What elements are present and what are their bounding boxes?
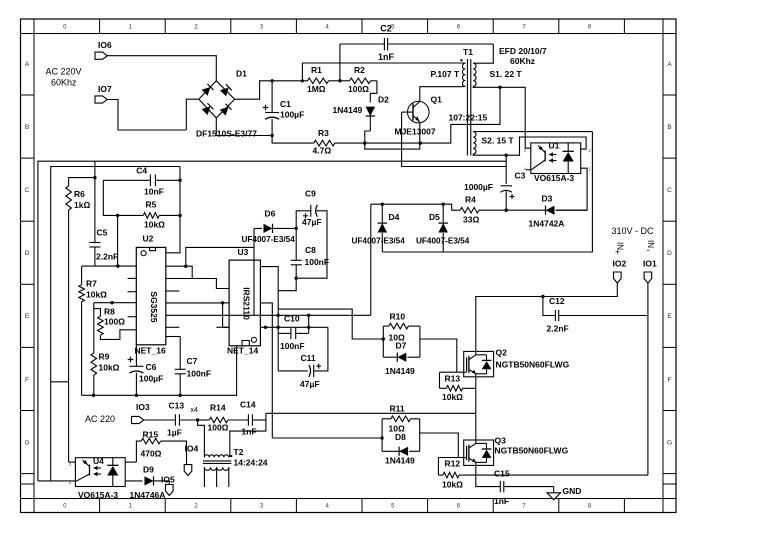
wire [462,85,466,87]
wire [371,204,460,210]
node [277,326,280,329]
svg-text:EFD 20/10/7: EFD 20/10/7 [499,46,547,56]
wire Q1 base [402,112,507,166]
node [221,301,224,304]
resistor R4 [460,207,479,213]
svg-text:C: C [25,187,30,194]
svg-text:G: G [667,439,672,446]
svg-text:100µF: 100µF [139,374,163,384]
svg-text:Q2: Q2 [496,348,508,358]
svg-text:Q1: Q1 [431,95,443,105]
wire [473,131,592,133]
svg-text:IO7: IO7 [98,84,112,94]
wire [128,291,137,293]
wire half-bridge mid rail [266,412,476,414]
wire [278,278,296,291]
wire U1 pin4 stub [526,169,531,171]
svg-text:C9: C9 [305,189,316,199]
resistor R10 [383,325,389,327]
svg-text:SG3525: SG3525 [149,291,159,322]
border frame [21,19,677,513]
optocoupler U4 VO615A-3 [75,458,125,487]
svg-text:MJE13007: MJE13007 [395,127,436,137]
node [419,141,422,144]
svg-text:C10: C10 [284,314,300,324]
svg-text:IRS2110: IRS2110 [242,287,252,320]
svg-text:2.2nF: 2.2nF [547,324,569,334]
svg-text:1N4149: 1N4149 [385,456,415,466]
svg-text:GND: GND [563,486,582,496]
capacitor C4 [103,179,150,181]
svg-text:C2: C2 [380,24,392,34]
wire [166,278,192,280]
wire [230,420,266,457]
svg-text:2.2nF: 2.2nF [96,252,118,262]
svg-text:1N4742A: 1N4742A [529,219,565,229]
svg-text:G: G [24,439,29,446]
wire [166,336,180,338]
svg-text:AC 220V: AC 220V [46,67,82,77]
wire [166,326,180,328]
svg-text:D1: D1 [236,69,247,79]
wire [476,283,618,351]
svg-text:C7: C7 [187,356,198,366]
svg-text:R6: R6 [74,189,85,199]
resistor R1 [302,80,307,82]
svg-text:B: B [667,124,671,131]
svg-text:C12: C12 [549,296,565,306]
wire [166,290,180,292]
wire [302,63,461,81]
svg-text:D7: D7 [396,341,407,351]
svg-text:D6: D6 [265,209,276,219]
diode D7 [383,356,397,358]
wire [506,137,586,155]
wire [198,420,205,457]
svg-text:D: D [667,250,672,257]
diode D6 [254,227,262,229]
svg-text:10kΩ: 10kΩ [86,290,107,300]
wire [339,44,341,81]
svg-text:UF4007-E3/54: UF4007-E3/54 [416,237,470,246]
wire [473,44,493,63]
wire [223,303,230,327]
wire [419,122,421,143]
svg-text:AC 220: AC 220 [85,414,115,424]
svg-text:C15: C15 [494,469,510,479]
optocoupler U1 VO615A-3 [531,143,581,174]
svg-text:P.107 T: P.107 T [431,69,460,79]
svg-text:C5: C5 [97,228,108,238]
wire U1 pin1 [556,168,587,210]
svg-text:D: D [25,250,30,257]
wire [107,56,217,81]
svg-text:U3: U3 [238,247,249,257]
resistor R15 [136,441,141,462]
ic U2 SG3525 [136,247,166,344]
node [338,79,341,82]
svg-text:R5: R5 [146,200,157,210]
node [295,277,298,280]
svg-text:T1: T1 [463,47,473,57]
svg-text:R3: R3 [318,128,329,138]
svg-text:C1: C1 [280,99,291,109]
svg-text:100Ω: 100Ω [104,317,125,327]
svg-text:R9: R9 [99,352,110,362]
connector IO6 [95,52,107,59]
wire [365,87,500,143]
capacitor C5 [94,178,96,243]
svg-text:100Ω: 100Ω [348,84,369,94]
node [184,265,187,268]
svg-text:R15: R15 [143,430,159,440]
diode D4 [381,204,383,223]
node [270,79,273,82]
wire high-side drive [278,309,383,339]
svg-text:DF1510S-E3/77: DF1510S-E3/77 [196,129,257,139]
diode D2 [366,107,376,116]
svg-text:E: E [667,313,672,320]
capacitor C9 [296,211,310,229]
node [264,326,267,329]
wire [223,302,230,304]
svg-text:IO6: IO6 [98,40,112,50]
svg-text:D5: D5 [429,212,440,222]
node [381,203,384,206]
wire [473,86,531,148]
svg-text:1N4746A: 1N4746A [130,490,166,500]
resistor R14 [198,419,210,421]
svg-text:D8: D8 [395,432,406,442]
wire [382,132,592,252]
capacitor C3 [505,155,507,184]
wire [125,461,136,463]
svg-text:VO615A-3: VO615A-3 [78,490,118,500]
transformer T2 primary [204,455,228,457]
node [92,394,95,397]
capacitor C6 [135,345,137,367]
svg-text:47µF: 47µF [302,217,322,227]
wire [260,326,328,328]
capacitor C11 [278,370,308,372]
capacitor C10 [278,332,290,334]
resistor R9 [94,302,137,304]
wire [216,118,272,136]
node [498,86,501,89]
ground GND [553,487,555,493]
wire [166,302,223,304]
diode D5 [442,204,444,223]
resistor R3 [314,140,335,146]
wire [370,204,372,315]
svg-text:A: A [25,61,30,68]
wire [462,62,466,64]
svg-text:D9: D9 [143,465,154,475]
node [505,154,508,157]
diode D8 [382,450,399,452]
wire long row [166,314,371,316]
svg-text:1nF: 1nF [494,496,509,506]
svg-text:1kΩ: 1kΩ [74,200,90,210]
svg-text:C11: C11 [301,353,316,363]
wire [51,167,180,481]
wire [365,131,371,143]
svg-text:F: F [668,376,672,383]
svg-text:D3: D3 [542,194,553,204]
svg-text:E: E [25,313,30,320]
svg-text:10nF: 10nF [144,187,164,197]
resistor R5 [103,180,117,215]
wire [38,480,76,482]
svg-text:S2. 15 T: S2. 15 T [482,136,515,146]
svg-text:1000µF: 1000µF [464,182,493,192]
svg-text:100Ω: 100Ω [208,423,229,433]
wire [463,474,648,476]
svg-text:R13: R13 [445,374,461,384]
svg-text:U4: U4 [93,456,104,466]
node [307,314,310,317]
wire [166,265,186,267]
transistor Q3 NGTB50N60FLWG [464,440,494,465]
svg-text:1N4149: 1N4149 [385,366,415,376]
svg-text:C6: C6 [146,362,157,372]
svg-text:C14: C14 [240,400,256,410]
capacitor C12 [543,297,555,316]
transistor Q2 NGTB50N60FLWG [464,351,494,376]
resistor R8 [94,309,101,317]
svg-text:R10: R10 [390,312,406,322]
svg-text:UF4007-E3/54: UF4007-E3/54 [242,235,296,244]
svg-text:D2: D2 [378,95,389,105]
svg-text:Q3: Q3 [495,436,507,446]
diode D9 [145,476,154,485]
wire [260,303,272,438]
svg-text:VO615A-3: VO615A-3 [534,173,574,183]
wire [420,87,462,102]
node [196,418,199,421]
wire [107,100,187,131]
wire [235,81,303,99]
transformer T2 core [203,460,231,462]
svg-text:T2: T2 [234,447,244,457]
svg-text:60Khz: 60Khz [51,78,77,88]
svg-text:10kΩ: 10kΩ [442,392,463,402]
svg-text:C4: C4 [136,166,147,176]
transistor Q1 MJE13007 [408,101,430,123]
wire [253,228,255,315]
svg-text:-: - [647,245,650,256]
wire gate Q3 [438,457,466,459]
capacitor C15 [499,481,501,492]
ic U3 IRS2110 [229,260,260,346]
svg-text:NET_16: NET_16 [135,346,166,356]
node [363,141,366,144]
svg-text:IO5: IO5 [161,475,175,485]
svg-text:A: A [667,61,672,68]
svg-text:1µF: 1µF [167,428,182,438]
node [301,79,304,82]
wire [69,461,76,463]
svg-text:47µF: 47µF [300,379,320,389]
wire [128,316,137,318]
wire [117,215,119,266]
svg-text:R7: R7 [86,279,97,289]
transformer T1 core [466,59,468,156]
svg-text:60Khz: 60Khz [510,56,535,66]
capacitor C7 [179,337,181,370]
svg-text:470Ω: 470Ω [141,449,162,459]
connector IO7 [95,96,107,103]
node [270,134,273,137]
svg-text:R4: R4 [465,195,476,205]
node [295,227,298,230]
svg-text:+: + [615,247,620,257]
svg-text:UF4007-E3/54: UF4007-E3/54 [352,237,406,246]
svg-text:10kΩ: 10kΩ [99,363,120,373]
node [382,337,385,340]
node [277,314,280,317]
svg-text:C8: C8 [305,245,316,255]
wire [476,465,500,486]
wire low-side drive [272,437,382,439]
node [505,209,508,212]
resistor R12 [437,458,439,476]
svg-text:107:22:15: 107:22:15 [449,113,488,123]
wire [420,339,457,372]
svg-text:NET_14: NET_14 [227,346,258,356]
svg-text:10kΩ: 10kΩ [442,480,463,490]
svg-text:100µF: 100µF [280,110,304,120]
svg-text:NGTB50N60FLWG: NGTB50N60FLWG [496,360,570,370]
svg-text:D4: D4 [389,212,400,222]
svg-text:U1: U1 [549,141,560,151]
resistor R13 [439,372,441,388]
wire [216,326,229,328]
diode D3 [506,209,545,211]
svg-text:1N4149: 1N4149 [333,105,363,115]
svg-text:IO3: IO3 [136,402,150,412]
wire [51,381,69,383]
wire [370,81,377,103]
svg-text:100nF: 100nF [280,341,305,351]
wire [186,266,229,288]
node [541,295,544,298]
svg-text:R12: R12 [445,459,461,469]
resistor R7 [81,266,83,285]
node [442,203,445,206]
svg-text:S1. 22 T: S1. 22 T [490,69,523,79]
bridge rectifier D1 [199,81,235,118]
svg-text:IO2: IO2 [613,259,627,269]
svg-text:R1: R1 [311,65,322,75]
wire [365,143,420,149]
transformer T1 primary P.107T [460,59,462,61]
svg-text:NGTB50N60FLWG: NGTB50N60FLWG [495,446,569,456]
transformer T1 secondary S1. 22T [473,63,476,86]
svg-text:R11: R11 [390,404,405,414]
transformer T1 secondary S2. 15T [473,132,476,154]
svg-text:R2: R2 [354,65,365,75]
wire [272,136,314,144]
capacitor C13 [174,414,176,425]
wire gate Q2 [440,371,467,373]
wire [265,413,267,420]
svg-text:4.7Ω: 4.7Ω [313,146,332,156]
capacitor C8 [295,228,297,260]
wire [473,154,506,155]
node [307,326,310,329]
svg-text:100nF: 100nF [187,369,212,379]
wire [143,419,175,421]
svg-text:C: C [667,187,672,194]
wire [125,480,142,482]
resistor R2 [340,80,350,82]
svg-text:310V - DC: 310V - DC [612,226,655,236]
wire [420,433,459,458]
resistor R6 [94,161,96,177]
svg-text:R14: R14 [210,403,226,413]
svg-text:1MΩ: 1MΩ [307,84,326,94]
transformer T2 secondary [204,467,228,470]
svg-text:U2: U2 [143,234,154,244]
wire [647,283,649,475]
node [380,436,383,439]
svg-text:IO4: IO4 [185,444,199,454]
svg-text:33Ω: 33Ω [463,215,479,225]
wire [128,277,137,279]
wire [38,161,506,481]
svg-text:x4: x4 [191,407,199,414]
wire [166,167,180,253]
capacitor C14 [247,414,249,425]
svg-text:C13: C13 [169,401,185,411]
wire [475,377,477,440]
wire [260,267,278,371]
svg-text:1nF: 1nF [378,52,395,62]
svg-text:100nF: 100nF [305,257,330,267]
wire [82,265,137,267]
capacitor C2 [340,43,384,45]
svg-text:C3: C3 [515,171,526,181]
svg-text:IO1: IO1 [643,259,657,269]
resistor R11 [382,418,391,420]
wire control ground rail [82,346,237,396]
svg-text:10kΩ: 10kΩ [144,220,165,230]
svg-text:B: B [25,124,29,131]
svg-text:14:24:24: 14:24:24 [234,458,268,468]
wire [186,99,199,130]
svg-text:F: F [25,376,29,383]
svg-text:R8: R8 [104,307,115,317]
wire [186,247,254,266]
capacitor C1 [271,81,273,113]
